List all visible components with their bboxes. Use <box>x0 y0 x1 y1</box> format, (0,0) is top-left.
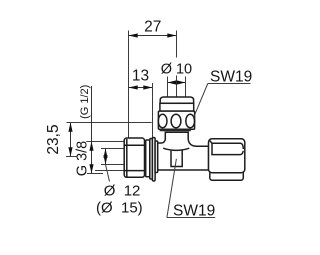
dimension G3/8 arrow up <box>89 142 93 151</box>
svg-text:SW19: SW19 <box>173 203 215 220</box>
svg-text:13: 13 <box>132 68 149 85</box>
dimension 23,5 extension line bottom (axis) <box>66 156 77 158</box>
dimension 27 arrow right <box>167 33 176 37</box>
svg-text:27: 27 <box>144 19 161 36</box>
svg-text:G 3/8: G 3/8 <box>75 141 91 176</box>
dimension 23,5 extension line top <box>67 122 152 124</box>
dimension 27 extension line left <box>128 31 130 138</box>
outlet nut bevel inner <box>212 143 243 154</box>
dimension G3/8 line <box>91 86 93 174</box>
dimension D12 arrow up <box>103 149 107 158</box>
handle skirt dark band <box>160 129 191 132</box>
svg-text:Ø 10: Ø 10 <box>161 62 192 78</box>
dimension 13 extension line right <box>152 83 154 138</box>
bonnet cap <box>160 97 193 103</box>
dimension 13 arrow left <box>129 85 138 89</box>
thread extension line at nut <box>95 170 125 172</box>
body flange ring <box>152 138 155 182</box>
washer ring 1 <box>146 140 150 177</box>
handle band <box>158 111 194 129</box>
dimension D10 extension lines <box>168 77 186 97</box>
outlet nut bevel top <box>210 141 244 149</box>
label SW19 bottom underline <box>167 217 215 219</box>
compression nut <box>124 138 144 177</box>
svg-text:Ø 12: Ø 12 <box>104 182 141 199</box>
washer ring 2 <box>150 139 153 180</box>
svg-text:(Ø 15): (Ø 15) <box>96 199 143 216</box>
dimension 27 arrow left <box>129 33 138 37</box>
dimension 23,5 arrow down <box>68 147 72 156</box>
outlet nut skirt <box>210 171 244 180</box>
svg-text:SW19: SW19 <box>210 69 252 86</box>
valve seat housing stub <box>171 150 182 166</box>
svg-text:23,5: 23,5 <box>45 124 62 154</box>
dimension 13 arrow right <box>143 85 152 89</box>
dimension 23,5 line <box>70 123 72 157</box>
thread G3/8 extension line bottom <box>87 173 103 175</box>
compression nut hex flat lines <box>124 145 144 170</box>
handle recess left <box>158 114 167 128</box>
handle recess right <box>186 114 195 128</box>
label SW19 top underline <box>208 83 251 85</box>
dimension D10 arrow left <box>168 80 177 84</box>
washer ring 4 <box>155 141 158 173</box>
label SW19 bottom leader <box>167 159 177 218</box>
dimension D12 line <box>105 149 107 165</box>
dimension G3/8 arrow down <box>89 164 93 173</box>
outlet nut SW19 <box>209 139 245 173</box>
dimension D12 leader <box>106 165 110 182</box>
bonnet collar <box>160 103 194 111</box>
pipe D12 extension line bottom <box>101 164 125 166</box>
svg-text:(G 1/2): (G 1/2) <box>79 85 91 119</box>
dimension 27 / port centerline extension right <box>176 31 178 97</box>
dimension 13 line <box>129 87 153 89</box>
dimension D10 arrow right <box>177 80 186 84</box>
thread G3/8 extension line top <box>86 141 124 143</box>
dimension 27 line <box>129 35 177 37</box>
dimension 23,5 arrow up <box>68 123 72 132</box>
compression nut face line <box>126 139 128 177</box>
valve body <box>158 132 209 170</box>
label SW19 top leader <box>193 84 208 119</box>
dimension D10 line <box>168 82 186 84</box>
pipe D12 extension line top <box>101 148 125 150</box>
dimension D12 arrow down <box>103 155 107 164</box>
handle recess center <box>171 114 181 128</box>
body dome intersection curve <box>163 148 189 150</box>
